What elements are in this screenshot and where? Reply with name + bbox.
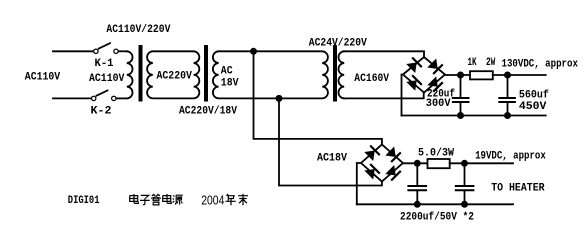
wire AC160V bottom to bridge B1 [344, 93, 424, 99]
bridge B1 diamond [403, 57, 445, 93]
diode D6 bridge B2 bottom-left [364, 164, 380, 180]
wire K-1 to T1 primary [119, 50, 127, 52]
svg-text:AC18V: AC18V [317, 152, 347, 164]
diode D8 bridge B2 bottom-right [385, 165, 401, 181]
CJK char guan 管 [151, 194, 161, 205]
node dot lower plus rail right [461, 160, 468, 167]
svg-text:450V: 450V [519, 101, 547, 113]
svg-text:AC110V: AC110V [89, 73, 125, 85]
capacitor C2 lead bottom [507, 103, 509, 116]
transformer T2 core [204, 45, 208, 102]
winding loop AC220V (T1 secondary / T2 primary) [147, 51, 199, 98]
CJK char mo 末 [238, 194, 248, 205]
diode D5 bridge B2 top-left [364, 145, 380, 161]
svg-text:DIGI01: DIGI01 [68, 195, 100, 207]
resistor R1 1K 2W [470, 71, 493, 79]
capacitor C3 2200uf lead top [416, 163, 418, 185]
svg-text:AC220V: AC220V [157, 71, 193, 83]
node dot upper minus rail left [457, 112, 464, 119]
label CJK 电子管电源 and 年末 drawn as strokes [130, 194, 248, 205]
wire K-2 to T1 primary [117, 97, 127, 99]
node dot lower plus rail left [414, 160, 421, 167]
svg-text:AC220V/18V: AC220V/18V [179, 106, 237, 118]
lower plus rail left [403, 162, 428, 164]
node dot upper plus rail left [457, 72, 464, 79]
svg-text:300V: 300V [426, 98, 451, 110]
wire AC110V input to K-2 [53, 97, 91, 99]
transformer T3 core [333, 45, 337, 102]
switch K-1 [94, 43, 119, 53]
wire AC160V top to bridge B1 [344, 51, 424, 57]
wire B2 minus down to lower bottom rail [357, 163, 361, 204]
svg-text:2200uf/50V *2: 2200uf/50V *2 [400, 211, 474, 223]
capacitor C4 plates [456, 186, 474, 190]
wire B1 minus down to bottom rail [402, 75, 404, 116]
svg-text:1K: 1K [468, 57, 477, 69]
resistor R2 5.0/3W [428, 159, 450, 168]
diode D4 bridge B1 bottom-right [427, 76, 443, 92]
node dot AC18V bottom junction [276, 95, 283, 102]
diode D2 bridge B1 bottom-left [406, 75, 422, 91]
diode D7 bridge B2 top-right [385, 146, 401, 162]
svg-text:AC110V/220V: AC110V/220V [106, 24, 170, 36]
node dot lower minus rail right [461, 201, 468, 208]
capacitor C4 2200uf lead top [464, 163, 466, 185]
svg-text:5.0/3W: 5.0/3W [418, 148, 454, 160]
wire AC110V input to K-1 [53, 50, 93, 52]
transformer T1 primary winding [127, 51, 133, 98]
capacitor C1 lead bottom [460, 103, 462, 116]
node dot AC18V top junction [250, 48, 257, 55]
capacitor C1 220uf lead top [460, 75, 462, 97]
wire drop 1 from AC18V top to lower bridge [254, 51, 382, 144]
node dot lower minus rail left [414, 201, 421, 208]
switch K-2 [92, 90, 117, 100]
svg-text:AC24V/220V: AC24V/220V [309, 38, 367, 50]
CJK char nian 年 [225, 194, 235, 205]
svg-text:AC: AC [221, 66, 233, 78]
svg-text:130VDC, approx: 130VDC, approx [502, 59, 579, 71]
diode D3 bridge B1 top-right [427, 58, 443, 74]
svg-text:18V: 18V [221, 77, 239, 89]
node dot upper minus rail right [504, 112, 511, 119]
winding loop AC18V (T2 secondary) / T3 primary [213, 51, 328, 98]
capacitor C3 lead bottom [416, 191, 418, 204]
CJK char zi 子 [140, 195, 150, 204]
svg-text:K-2: K-2 [91, 106, 112, 118]
capacitor C1 plates [453, 98, 469, 102]
upper plus rail [445, 74, 470, 76]
wire R2 to output [450, 162, 513, 164]
svg-text:AC110V: AC110V [25, 72, 61, 84]
svg-text:2004: 2004 [201, 192, 224, 207]
svg-text:AC160V: AC160V [354, 73, 389, 85]
CJK char dian 电 [130, 194, 139, 203]
upper minus rail [402, 115, 546, 117]
svg-text:K-1: K-1 [95, 58, 114, 70]
svg-text:560uf: 560uf [519, 90, 549, 102]
capacitor C2 560uf lead top [507, 75, 509, 97]
svg-text:TO HEATER: TO HEATER [491, 183, 545, 195]
diode D1 bridge B1 top-left [406, 57, 422, 73]
svg-text:2W: 2W [486, 57, 496, 69]
lower minus rail [357, 203, 513, 205]
transformer T1 core [139, 45, 143, 102]
capacitor C3 plates [408, 186, 426, 190]
capacitor C4 lead bottom [464, 191, 466, 204]
bridge B2 diamond [361, 145, 403, 182]
node dot upper plus rail right [504, 72, 511, 79]
wire R1 to output [493, 74, 546, 76]
CJK char yuan 源 [173, 195, 183, 204]
wire drop 2 from AC18V bottom to lower bridge [279, 98, 382, 185]
svg-text:19VDC, approx: 19VDC, approx [475, 150, 546, 162]
transformer T3 secondary winding AC160V [338, 51, 344, 98]
capacitor C2 plates [499, 98, 515, 102]
CJK char dian 电 [163, 194, 172, 203]
